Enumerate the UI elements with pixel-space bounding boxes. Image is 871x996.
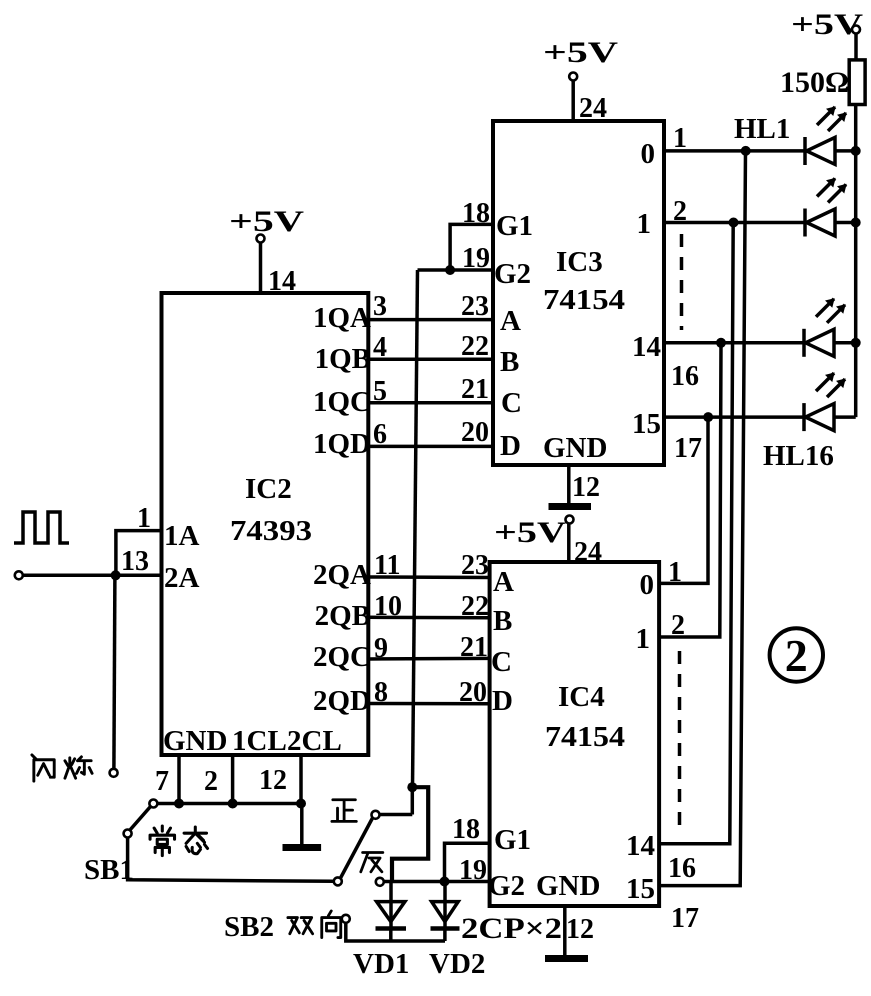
svg-text:14: 14 [626,830,655,862]
wire IC3 out15 to LED4 [664,415,804,419]
svg-text:74393: 74393 [230,515,312,547]
svg-text:VD1: VD1 [353,948,409,980]
svg-text:24: 24 [574,537,602,568]
svg-text:G2: G2 [488,870,525,902]
svg-text:22: 22 [461,591,489,622]
svg-text:1QC: 1QC [313,386,371,418]
svg-text:20: 20 [461,417,489,448]
svg-text:150Ω: 150Ω [780,66,849,99]
svg-text:+5V: +5V [791,8,863,41]
wire IC2 2QD to IC4 D [368,702,489,706]
svg-text:12: 12 [566,914,594,945]
svg-text:1QA: 1QA [313,302,371,334]
svg-text:16: 16 [671,361,699,392]
svg-text:SB1: SB1 [84,854,134,886]
switch SB2 contact forward [372,811,380,819]
ground symbol bottom [283,844,322,851]
label 正 (forward) [332,800,356,822]
node G1-G2 junction [445,265,455,275]
wire hook node to diode bus [392,787,428,881]
svg-text:2CP×2: 2CP×2 [461,912,562,945]
svg-text:1CL: 1CL [232,725,287,757]
svg-text:0: 0 [641,138,656,170]
svg-text:2QC: 2QC [313,641,371,673]
node rail row1 [851,146,861,156]
label 闪烁 (flash) [32,755,92,781]
svg-text:17: 17 [671,903,699,934]
node SB2 bus junction [407,782,417,792]
svg-text:A: A [500,305,521,337]
svg-text:IC4: IC4 [558,681,605,713]
dashed continuation line IC4 outputs [678,651,682,830]
svg-text:7: 7 [155,766,169,797]
LED HL16 [804,373,856,431]
svg-text:21: 21 [460,632,488,663]
wire IC4 G1 pin 18 [445,843,490,881]
input terminal (left) [15,571,23,579]
svg-text:VD2: VD2 [429,948,485,980]
svg-text:22: 22 [461,331,489,362]
svg-text:16: 16 [668,853,696,884]
LED 2 [805,179,856,237]
node rail row14 [851,338,861,348]
svg-text:4: 4 [373,332,387,363]
svg-text:74154: 74154 [543,284,625,316]
wire anode rail [854,105,858,418]
switch SB1 pole [124,830,132,838]
ground symbol IC4 [545,955,588,962]
svg-text:2: 2 [673,196,687,227]
wire +5V to IC3 pin 24 [571,81,575,122]
svg-text:D: D [500,430,521,462]
diode VD1 [376,882,407,942]
wire IC2 2QA to IC4 A [368,575,489,579]
wire IC2 1QD to IC3 D [368,445,493,449]
svg-text:+5V: +5V [543,36,618,69]
node out14 row2 [729,218,739,228]
svg-text:C: C [491,646,512,678]
svg-text:8: 8 [374,677,388,708]
switch SB2 pole [334,877,342,885]
+5V terminal IC2 [257,235,265,243]
diode VD2 [431,882,460,942]
IC2 74393 body [162,293,369,755]
svg-text:3: 3 [373,291,387,322]
svg-text:21: 21 [461,374,489,405]
switch SB1 contact [149,800,157,808]
svg-text:19: 19 [462,243,490,274]
svg-text:GND: GND [536,870,600,902]
svg-text:1: 1 [673,123,687,154]
svg-text:2A: 2A [164,562,200,594]
svg-text:1: 1 [636,623,651,655]
svg-text:1: 1 [637,208,652,240]
svg-text:18: 18 [452,814,480,845]
svg-text:1: 1 [668,557,682,588]
svg-text:+5V: +5V [494,516,566,549]
svg-text:10: 10 [374,591,402,622]
svg-text:15: 15 [626,873,655,905]
node G1-G2 junction IC4 [440,877,450,887]
wire +5V to resistor [854,34,858,60]
switch SB1 lever [130,807,151,831]
svg-text:D: D [492,685,513,717]
wire IC2 2QC to IC4 C [368,657,489,661]
svg-text:IC3: IC3 [556,246,603,278]
node junction on input wire [111,570,121,580]
svg-text:0: 0 [640,569,655,601]
svg-text:18: 18 [462,198,490,229]
svg-text:B: B [493,605,512,637]
svg-text:19: 19 [459,855,487,886]
label 反 (reverse) [361,853,383,872]
wire diode cathode bus [346,923,445,941]
node out0 row15 [703,412,713,422]
label 常态 (normal) [150,826,207,856]
+5V terminal IC3 [569,73,577,81]
wire IC4 out15 up to LED row 1 [659,151,745,886]
wire IC3 out0 to HL1 [664,149,804,153]
LED HL1 [805,107,856,165]
svg-text:14: 14 [632,331,661,363]
wire forward contact to G bus [380,813,413,817]
wire +5V to IC2 pin 14 [259,243,263,293]
LED 3 [804,299,856,357]
svg-text:14: 14 [268,266,296,297]
svg-text:2QD: 2QD [313,685,371,717]
node rail row2 [851,218,861,228]
figure number 2 circled [770,628,823,681]
wire IC3 G2 pin 19 [418,268,494,272]
wire IC2 1QB to IC3 B [368,357,493,361]
svg-text:5: 5 [373,376,387,407]
terminal SB2 common [342,915,350,923]
svg-text:2: 2 [785,630,808,681]
IC4 GND pin 12 stub [563,906,567,955]
IC3 GND pin 12 stub [567,465,571,504]
svg-text:G1: G1 [496,210,533,242]
svg-text:HL16: HL16 [763,440,834,472]
svg-text:2QB: 2QB [315,600,371,632]
switch SB2 lever [341,818,373,878]
node pin12 bus [296,799,306,809]
IC2 2CL pin 12 stub [299,755,303,804]
svg-text:GND: GND [543,432,607,464]
svg-text:G2: G2 [494,258,531,290]
svg-text:24: 24 [579,93,607,124]
wire IC4 out1 up to LED row 14 [659,343,721,637]
svg-text:13: 13 [121,546,149,577]
svg-text:1QD: 1QD [313,428,371,460]
node pin7 bus [174,799,184,809]
svg-text:C: C [501,387,522,419]
wire IC3 out1 to LED2 [664,221,804,225]
wire IC4 out0 up to LED row 15 [659,417,708,583]
wire IC2 1QC to IC3 C [368,401,493,405]
wire IC3 G1 pin 18 [450,224,493,270]
resistor 150ohm [849,60,865,105]
long vertical wire G2 bus to SB2 [413,270,418,787]
svg-text:1: 1 [137,503,151,534]
+5V terminal IC4 [566,516,574,524]
wire junction down to flash terminal [114,575,115,769]
svg-text:1QB: 1QB [315,343,371,375]
svg-text:23: 23 [461,550,489,581]
svg-text:HL1: HL1 [734,113,790,145]
svg-text:2CL: 2CL [287,725,342,757]
svg-text:2: 2 [204,766,218,797]
svg-text:6: 6 [373,419,387,450]
wire IC3 out14 to LED3 [664,341,804,345]
svg-text:B: B [500,346,519,378]
svg-text:1A: 1A [164,520,200,552]
svg-text:SB2: SB2 [224,911,274,943]
svg-text:2QA: 2QA [313,559,371,591]
wire stub node to forward contact [411,787,415,814]
wire bottom bus to ground [157,804,302,845]
dashed continuation line IC3 outputs [680,234,684,330]
wire IC2 2QB to IC4 B [368,616,489,620]
IC3 74154 body [493,121,664,465]
ground symbol IC3 [549,503,592,510]
svg-text:A: A [493,566,514,598]
svg-text:74154: 74154 [545,721,625,753]
svg-text:20: 20 [459,677,487,708]
wire junction to IC2 pin 1 [116,531,162,576]
svg-text:23: 23 [461,291,489,322]
flash terminal [110,769,118,777]
svg-text:G1: G1 [494,824,531,856]
svg-text:2: 2 [671,610,685,641]
IC4 74154 body [490,562,659,906]
wire IC4 G2 pin 19 [384,880,490,884]
svg-text:9: 9 [374,633,388,664]
svg-text:12: 12 [572,472,600,503]
+5V terminal top right [852,26,860,34]
wire SB1 to SB2 [128,838,334,882]
node out1 row14 [716,338,726,348]
wire IC4 out14 up to LED row 2 [659,223,733,844]
switch SB2 contact reverse [376,878,384,886]
svg-text:IC2: IC2 [245,473,292,505]
svg-text:15: 15 [632,408,661,440]
IC2 1CL pin 2 stub [231,755,235,804]
wire +5V to IC4 pin 24 [567,524,571,563]
svg-text:17: 17 [674,433,702,464]
svg-text:GND: GND [163,725,227,757]
IC2 GND pin 7 stub [177,755,181,804]
svg-text:12: 12 [259,765,287,796]
node out15 row1 [741,146,751,156]
svg-text:+5V: +5V [229,205,304,238]
node pin2 bus [228,799,238,809]
wire IC2 1QA to IC3 A [368,318,493,322]
pulse waveform symbol [14,512,69,543]
svg-text:11: 11 [374,550,400,581]
wire input to IC2 pin 13 [23,574,162,578]
